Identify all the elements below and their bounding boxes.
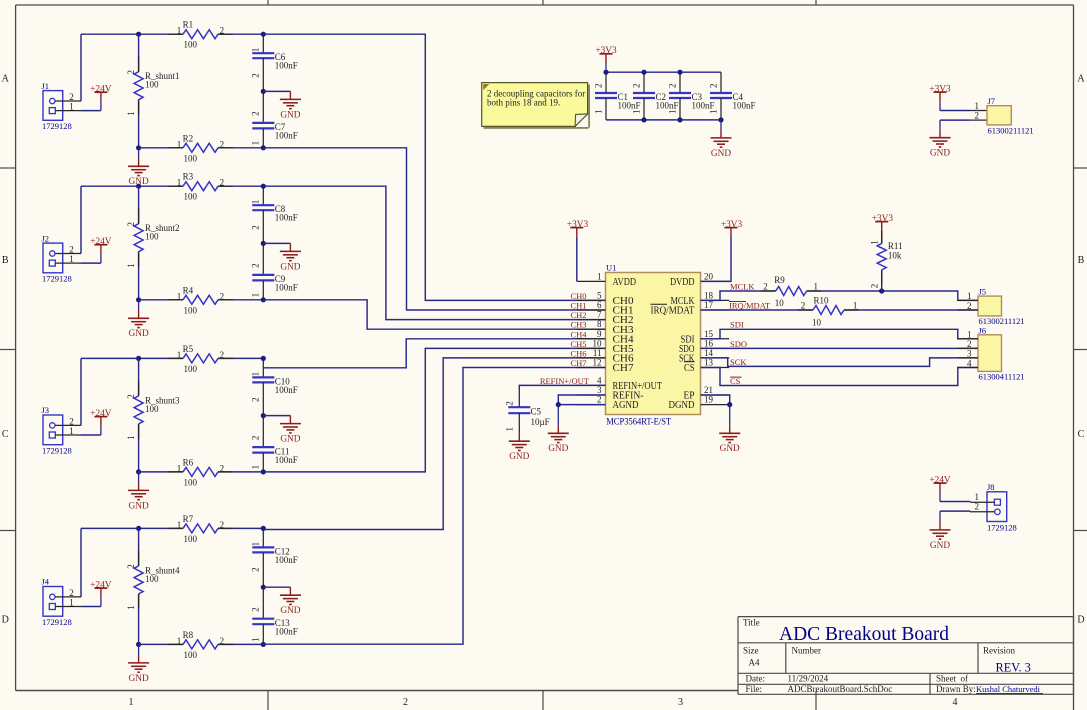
svg-text:1: 1 xyxy=(129,697,134,708)
svg-text:1: 1 xyxy=(708,110,718,115)
svg-text:1: 1 xyxy=(967,291,972,301)
svg-text:100nF: 100nF xyxy=(275,455,298,465)
svg-text:100nF: 100nF xyxy=(656,101,679,111)
svg-text:2: 2 xyxy=(126,222,136,227)
svg-text:REV. 3: REV. 3 xyxy=(996,661,1031,675)
svg-text:20: 20 xyxy=(704,271,714,281)
svg-text:1: 1 xyxy=(251,141,261,146)
svg-text:R3: R3 xyxy=(183,172,194,182)
svg-text:CH1: CH1 xyxy=(570,301,586,311)
svg-text:IRQ/MDAT: IRQ/MDAT xyxy=(651,305,695,317)
svg-text:R11: R11 xyxy=(888,241,903,251)
svg-text:GND: GND xyxy=(548,444,568,454)
svg-text:GND: GND xyxy=(280,262,300,272)
svg-text:GND: GND xyxy=(930,541,950,551)
svg-text:1: 1 xyxy=(251,542,261,547)
svg-text:GND: GND xyxy=(930,149,950,159)
svg-text:2: 2 xyxy=(505,401,515,406)
svg-text:1: 1 xyxy=(870,240,880,245)
svg-text:+24V: +24V xyxy=(90,237,112,247)
svg-text:100: 100 xyxy=(145,404,159,414)
svg-text:U1: U1 xyxy=(606,263,616,273)
svg-text:2: 2 xyxy=(251,263,261,268)
svg-text:1: 1 xyxy=(975,101,980,111)
svg-text:GND: GND xyxy=(280,606,300,616)
svg-text:4: 4 xyxy=(967,358,972,368)
svg-text:1: 1 xyxy=(853,301,858,311)
svg-text:J5: J5 xyxy=(979,287,987,297)
svg-text:both pins 18 and 19.: both pins 18 and 19. xyxy=(487,98,560,108)
svg-text:A: A xyxy=(2,74,10,85)
svg-text:+24V: +24V xyxy=(90,581,112,591)
svg-text:J8: J8 xyxy=(987,482,995,492)
svg-text:1: 1 xyxy=(126,605,136,610)
svg-text:2: 2 xyxy=(763,282,768,292)
svg-text:4: 4 xyxy=(597,375,602,385)
svg-text:C: C xyxy=(1078,429,1085,440)
svg-text:R1: R1 xyxy=(183,20,194,30)
svg-text:100nF: 100nF xyxy=(618,101,641,111)
svg-text:2: 2 xyxy=(975,111,980,121)
svg-text:GND: GND xyxy=(280,435,300,445)
svg-text:11: 11 xyxy=(593,348,602,358)
svg-text:100: 100 xyxy=(184,650,198,660)
svg-text:100: 100 xyxy=(184,364,198,374)
svg-text:10: 10 xyxy=(593,338,603,348)
svg-text:CH5: CH5 xyxy=(570,339,586,349)
svg-text:SCK: SCK xyxy=(730,357,747,367)
svg-text:CH4: CH4 xyxy=(570,329,587,339)
svg-text:J6: J6 xyxy=(979,325,987,335)
svg-text:D: D xyxy=(1077,615,1084,626)
svg-text:2: 2 xyxy=(667,84,677,89)
svg-text:R7: R7 xyxy=(183,514,194,524)
svg-text:AGND: AGND xyxy=(613,399,639,411)
svg-text:1: 1 xyxy=(967,330,972,340)
svg-text:1729128: 1729128 xyxy=(42,274,72,284)
svg-text:A: A xyxy=(1077,74,1085,85)
svg-text:R8: R8 xyxy=(183,630,194,640)
svg-text:3: 3 xyxy=(597,385,602,395)
svg-text:1: 1 xyxy=(593,110,603,115)
svg-text:1: 1 xyxy=(975,492,980,502)
svg-text:CH7: CH7 xyxy=(570,358,586,368)
svg-text:4: 4 xyxy=(953,697,958,708)
svg-text:2: 2 xyxy=(126,70,136,75)
svg-text:2: 2 xyxy=(126,394,136,399)
svg-text:+3V3: +3V3 xyxy=(721,220,743,230)
svg-text:1: 1 xyxy=(251,465,261,470)
svg-text:1: 1 xyxy=(814,282,819,292)
svg-text:GND: GND xyxy=(711,149,731,159)
svg-text:21: 21 xyxy=(704,385,713,395)
svg-text:R10: R10 xyxy=(814,296,830,306)
svg-text:2: 2 xyxy=(708,84,718,89)
svg-text:CS: CS xyxy=(684,362,695,374)
svg-text:R9: R9 xyxy=(774,275,785,285)
svg-text:2: 2 xyxy=(593,84,603,89)
svg-text:6: 6 xyxy=(597,300,602,310)
svg-text:2: 2 xyxy=(251,397,261,402)
svg-text:GND: GND xyxy=(129,501,149,511)
svg-text:1: 1 xyxy=(126,111,136,116)
svg-text:J4: J4 xyxy=(42,577,50,587)
svg-text:100: 100 xyxy=(184,40,198,50)
svg-text:10k: 10k xyxy=(888,251,902,261)
svg-text:2: 2 xyxy=(967,339,972,349)
svg-text:GND: GND xyxy=(720,444,740,454)
svg-text:AVDD: AVDD xyxy=(613,276,637,288)
svg-text:7: 7 xyxy=(597,310,602,320)
svg-text:+24V: +24V xyxy=(929,476,951,486)
svg-text:18: 18 xyxy=(704,290,714,300)
svg-text:R4: R4 xyxy=(183,285,194,295)
svg-text:2: 2 xyxy=(403,697,408,708)
svg-text:16: 16 xyxy=(704,338,714,348)
svg-text:1: 1 xyxy=(251,372,261,377)
svg-text:+3V3: +3V3 xyxy=(595,46,617,56)
svg-text:61300211121: 61300211121 xyxy=(988,125,1034,135)
svg-text:1: 1 xyxy=(631,110,641,115)
svg-text:1: 1 xyxy=(597,271,602,281)
svg-text:1: 1 xyxy=(251,637,261,642)
svg-text:2: 2 xyxy=(967,301,972,311)
svg-text:9: 9 xyxy=(597,329,602,339)
svg-text:CH7: CH7 xyxy=(613,362,635,374)
svg-text:1: 1 xyxy=(126,435,136,440)
svg-text:2: 2 xyxy=(870,284,880,289)
svg-text:100: 100 xyxy=(184,192,198,202)
svg-text:C5: C5 xyxy=(531,407,542,417)
svg-text:100: 100 xyxy=(184,305,198,315)
svg-text:2: 2 xyxy=(975,502,980,512)
svg-text:1: 1 xyxy=(251,48,261,53)
svg-text:100nF: 100nF xyxy=(733,101,756,111)
svg-text:1729128: 1729128 xyxy=(987,522,1017,532)
svg-text:+24V: +24V xyxy=(90,409,112,419)
svg-text:GND: GND xyxy=(129,329,149,339)
svg-text:J3: J3 xyxy=(42,405,50,415)
svg-text:2: 2 xyxy=(251,567,261,572)
svg-text:5: 5 xyxy=(597,290,602,300)
svg-text:17: 17 xyxy=(704,300,714,310)
svg-text:100: 100 xyxy=(184,534,198,544)
svg-text:2: 2 xyxy=(251,73,261,78)
svg-text:1: 1 xyxy=(251,293,261,298)
svg-text:100nF: 100nF xyxy=(275,627,298,637)
svg-text:Date:: Date: xyxy=(746,674,766,684)
svg-text:B: B xyxy=(1078,255,1085,266)
svg-text:2: 2 xyxy=(126,564,136,569)
svg-text:R5: R5 xyxy=(183,344,194,354)
svg-text:GND: GND xyxy=(509,452,529,462)
svg-text:+3V3: +3V3 xyxy=(872,214,894,224)
svg-text:Number: Number xyxy=(792,646,822,656)
svg-text:100: 100 xyxy=(184,153,198,163)
svg-text:1729128: 1729128 xyxy=(42,617,72,627)
svg-text:1: 1 xyxy=(667,110,677,115)
svg-text:15: 15 xyxy=(704,329,714,339)
svg-text:100nF: 100nF xyxy=(275,385,298,395)
svg-text:+3V3: +3V3 xyxy=(567,220,589,230)
svg-text:Kushal Chaturvedi: Kushal Chaturvedi xyxy=(976,684,1041,694)
svg-text:ADC Breakout Board: ADC Breakout Board xyxy=(779,624,949,645)
svg-text:+24V: +24V xyxy=(90,85,112,95)
svg-text:8: 8 xyxy=(597,319,602,329)
svg-text:CH0: CH0 xyxy=(570,291,586,301)
svg-text:2: 2 xyxy=(801,301,806,311)
svg-text:100nF: 100nF xyxy=(275,555,298,565)
svg-text:2: 2 xyxy=(251,225,261,230)
svg-text:100: 100 xyxy=(184,477,198,487)
svg-text:DVDD: DVDD xyxy=(670,276,695,288)
svg-text:1: 1 xyxy=(251,200,261,205)
svg-text:1: 1 xyxy=(126,263,136,268)
svg-text:13: 13 xyxy=(704,358,714,368)
svg-text:61300411121: 61300411121 xyxy=(979,372,1025,382)
svg-text:14: 14 xyxy=(704,348,714,358)
svg-text:Title: Title xyxy=(743,618,760,628)
svg-text:J1: J1 xyxy=(42,81,50,91)
svg-text:2: 2 xyxy=(631,84,641,89)
svg-text:3: 3 xyxy=(678,697,683,708)
svg-text:GND: GND xyxy=(280,110,300,120)
svg-text:CH6: CH6 xyxy=(570,348,586,358)
svg-text:2: 2 xyxy=(251,111,261,116)
svg-text:B: B xyxy=(2,255,9,266)
svg-text:2: 2 xyxy=(597,395,602,405)
svg-text:C: C xyxy=(2,429,9,440)
svg-text:CH2: CH2 xyxy=(570,310,586,320)
svg-text:100: 100 xyxy=(145,574,159,584)
svg-text:1: 1 xyxy=(505,427,515,432)
svg-text:100nF: 100nF xyxy=(275,213,298,223)
svg-text:10: 10 xyxy=(812,318,822,328)
svg-text:100nF: 100nF xyxy=(275,131,298,141)
svg-text:DGND: DGND xyxy=(669,399,695,411)
svg-text:J7: J7 xyxy=(988,96,996,106)
svg-text:19: 19 xyxy=(704,395,714,405)
svg-text:GND: GND xyxy=(129,674,149,684)
svg-text:2: 2 xyxy=(251,436,261,441)
svg-text:REFIN+/OUT: REFIN+/OUT xyxy=(540,376,590,386)
svg-text:File:: File: xyxy=(746,684,763,694)
svg-text:ADCBreakoutBoard.SchDoc: ADCBreakoutBoard.SchDoc xyxy=(788,684,893,694)
svg-text:10: 10 xyxy=(775,298,785,308)
svg-text:D: D xyxy=(2,615,9,626)
svg-text:3: 3 xyxy=(967,349,972,359)
svg-text:Revision: Revision xyxy=(983,646,1016,656)
svg-text:100: 100 xyxy=(145,232,159,242)
svg-text:1729128: 1729128 xyxy=(42,121,72,131)
svg-text:100nF: 100nF xyxy=(692,101,715,111)
svg-text:2: 2 xyxy=(251,607,261,612)
svg-text:R6: R6 xyxy=(183,457,194,467)
svg-text:+3V3: +3V3 xyxy=(929,85,951,95)
svg-text:100nF: 100nF xyxy=(275,283,298,293)
svg-text:11/29/2024: 11/29/2024 xyxy=(788,674,829,684)
svg-text:SDO: SDO xyxy=(730,339,747,349)
svg-text:12: 12 xyxy=(593,358,602,368)
svg-text:A4: A4 xyxy=(749,658,760,668)
svg-text:R2: R2 xyxy=(183,133,194,143)
svg-text:Drawn By:: Drawn By: xyxy=(936,684,976,694)
svg-text:MCLK: MCLK xyxy=(730,282,755,292)
svg-text:100: 100 xyxy=(145,80,159,90)
svg-text:J2: J2 xyxy=(42,233,50,243)
svg-text:10µF: 10µF xyxy=(531,417,550,427)
svg-text:Size: Size xyxy=(743,646,759,656)
svg-text:SDI: SDI xyxy=(730,320,744,330)
svg-text:100nF: 100nF xyxy=(275,61,298,71)
svg-text:CH3: CH3 xyxy=(570,320,586,330)
svg-text:Sheet of: Sheet of xyxy=(936,674,968,684)
svg-text:MCP3564RT-E/ST: MCP3564RT-E/ST xyxy=(606,417,671,428)
svg-text:1729128: 1729128 xyxy=(42,446,72,456)
